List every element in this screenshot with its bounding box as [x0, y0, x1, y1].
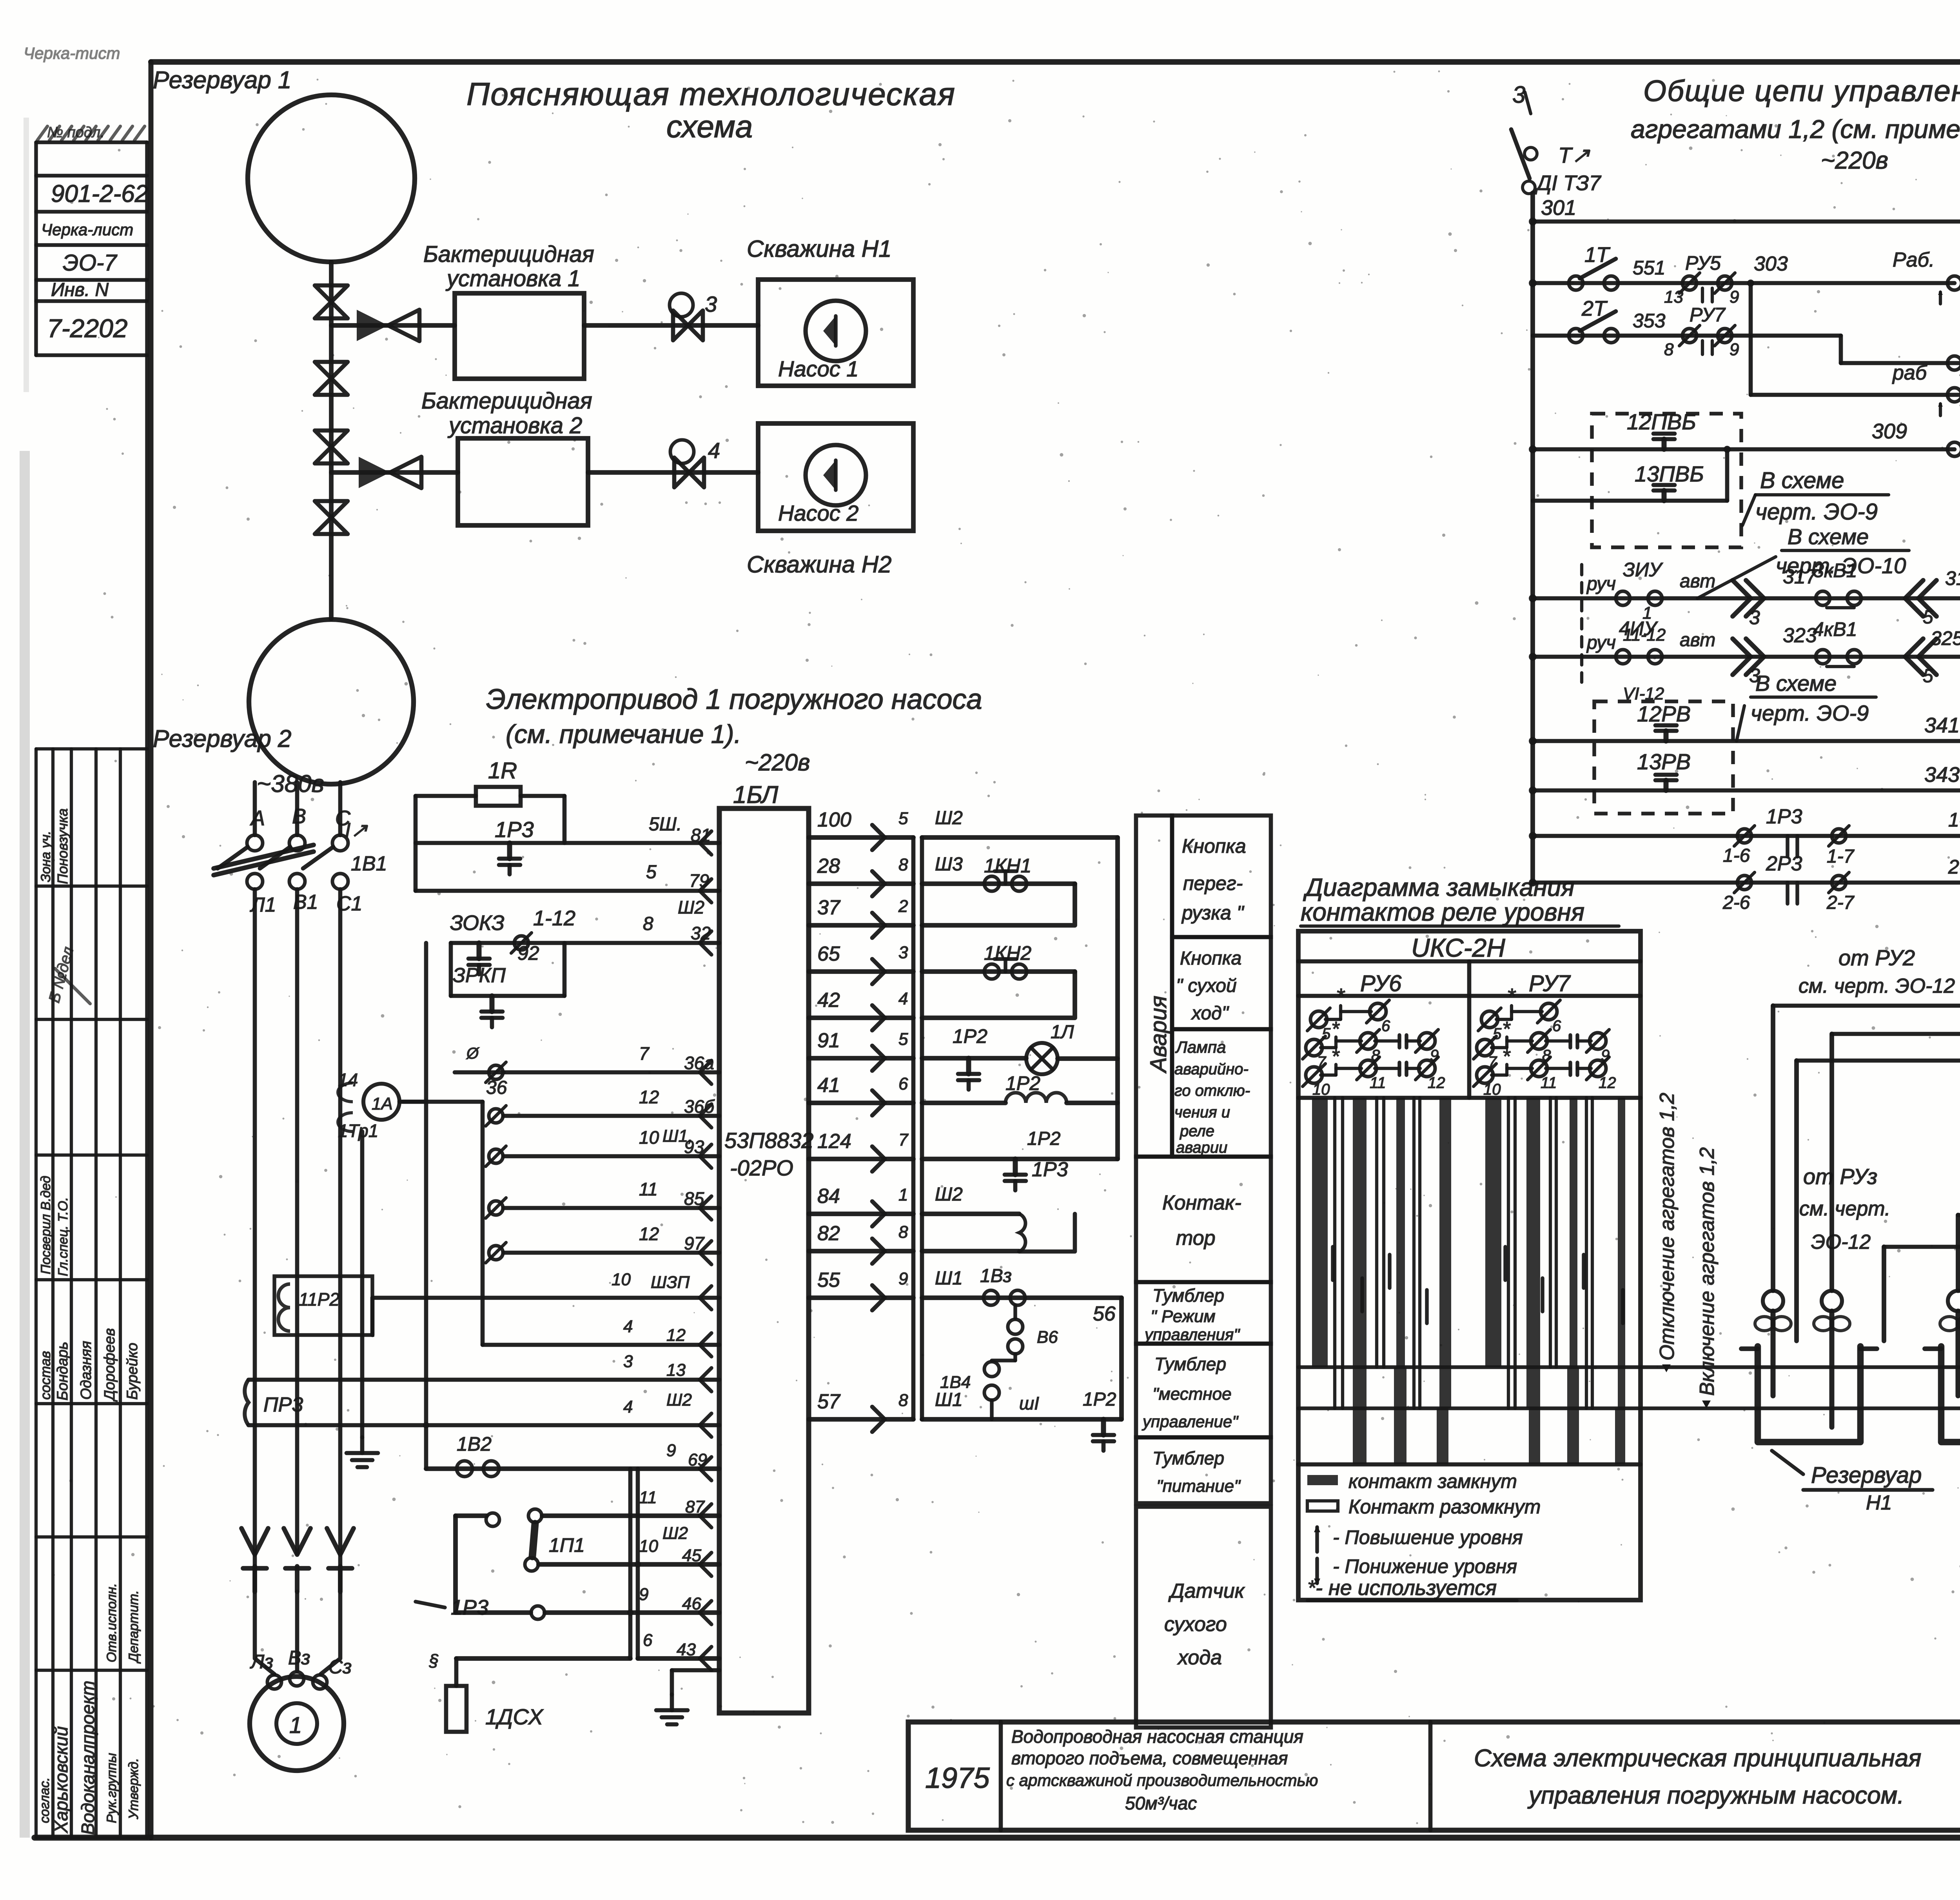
svg-text:чения и: чения и — [1174, 1104, 1230, 1121]
block right output rails — [809, 835, 913, 840]
svg-text:1Р3: 1Р3 — [1766, 805, 1802, 828]
reservoir tank 1 — [1758, 1346, 1860, 1442]
svg-text:1ДСХ: 1ДСХ — [485, 1704, 544, 1729]
junction 303 — [1747, 280, 1754, 287]
svg-text:36а: 36а — [684, 1053, 714, 1073]
left margin scan streak — [20, 451, 30, 1838]
rails from 1П1 into block — [542, 1513, 719, 1518]
svg-text:45: 45 — [682, 1546, 701, 1565]
left strip signature grid middle — [36, 747, 147, 750]
svg-text:Дорофеев: Дорофеев — [102, 1328, 118, 1402]
svg-text:36: 36 — [486, 1077, 507, 1098]
svg-text:ЗРКП: ЗРКП — [453, 964, 506, 987]
probe wire 333 down to tank1 rim — [1794, 1061, 1799, 1341]
svg-text:установка 2: установка 2 — [447, 413, 582, 438]
probe wire 331 down to probe 1b — [1829, 1034, 1834, 1291]
button 1КН2 rung — [922, 969, 1075, 974]
svg-text:*- не используется: *- не используется — [1307, 1576, 1497, 1600]
svg-text:ДІ ТЗ7: ДІ ТЗ7 — [1535, 171, 1602, 195]
desc box Кнопка сухой ход — [1172, 937, 1271, 1029]
svg-text:Вз: Вз — [288, 1647, 310, 1669]
svg-text:1А: 1А — [372, 1094, 393, 1113]
svg-text:ПР3: ПР3 — [263, 1393, 303, 1416]
svg-text:шI: шI — [1019, 1393, 1039, 1413]
svg-text:100: 100 — [817, 808, 851, 831]
svg-text:2-7: 2-7 — [1826, 892, 1855, 913]
svg-text:I↗: I↗ — [345, 819, 368, 842]
svg-text:Бактерицидная: Бактерицидная — [421, 388, 592, 414]
svg-text:Электропривод 1 погружного нас: Электропривод 1 погружного насоса — [486, 684, 982, 715]
valve 3 on pipe — [315, 430, 348, 447]
rail 301 with relay coil 1РН — [1533, 220, 1960, 224]
svg-text:82: 82 — [817, 1222, 840, 1245]
svg-text:1В1: 1В1 — [351, 852, 387, 875]
svg-text:50м³/час: 50м³/час — [1125, 1793, 1197, 1813]
svg-text:124: 124 — [817, 1130, 851, 1153]
svg-text:92: 92 — [517, 942, 539, 964]
svg-text:схема: схема — [666, 109, 753, 144]
svg-text:1Р3: 1Р3 — [495, 817, 534, 842]
rung 2Т with РУ7 contact — [1533, 334, 1841, 338]
svg-text:7: 7 — [639, 1043, 650, 1064]
svg-text:Лз: Лз — [250, 1651, 274, 1673]
desc box Датчик сухого хода — [1136, 1507, 1271, 1727]
svg-text:53П8832: 53П8832 — [724, 1128, 813, 1153]
svg-text:Утвержд.: Утвержд. — [126, 1758, 141, 1820]
UKS header УКС-2Н — [1298, 959, 1641, 964]
svg-text:Авария: Авария — [1146, 996, 1171, 1074]
svg-text:второго подъема, совмещенная: второго подъема, совмещенная — [1011, 1748, 1288, 1768]
svg-text:Инв. N: Инв. N — [51, 280, 109, 300]
check valve on branch 2 — [359, 457, 390, 488]
svg-text:Водоканалпроект: Водоканалпроект — [78, 1680, 98, 1835]
phase wire C down — [338, 889, 343, 1555]
svg-text:см. черт.: см. черт. — [1799, 1197, 1890, 1220]
svg-text:Рук.группы: Рук.группы — [104, 1753, 119, 1823]
svg-text:хода: хода — [1177, 1646, 1222, 1669]
wire 36a stub — [455, 1070, 504, 1075]
svg-text:5: 5 — [1923, 607, 1933, 628]
svg-text:4ИУ: 4ИУ — [1619, 618, 1659, 639]
svg-text:97: 97 — [684, 1233, 705, 1253]
wire 329 to РУ6 — [1773, 1004, 1960, 1008]
probe wire 329 down to probe 1a — [1771, 1006, 1775, 1291]
svg-text:-02РО: -02РО — [730, 1155, 793, 1180]
svg-text:41: 41 — [817, 1074, 840, 1097]
desc box Кнопка перегрузка — [1172, 816, 1271, 937]
svg-text:79: 79 — [689, 870, 709, 891]
bars left half — [1312, 1098, 1328, 1367]
svg-text:РУ7: РУ7 — [1690, 304, 1726, 326]
breaker 1В1 three poles — [253, 782, 257, 835]
svg-text:56: 56 — [1093, 1302, 1116, 1325]
wire transformer secondary down — [360, 1132, 365, 1437]
svg-text:1Р3: 1Р3 — [1032, 1158, 1068, 1181]
svg-text:Резервуар: Резервуар — [1811, 1462, 1922, 1488]
svg-text:В6: В6 — [1037, 1328, 1058, 1347]
selector crossover — [1839, 336, 1843, 363]
svg-text:43: 43 — [677, 1640, 696, 1659]
svg-text:12: 12 — [666, 1326, 686, 1345]
svg-text:авт: авт — [1680, 630, 1715, 650]
svg-text:Кнопка: Кнопка — [1180, 948, 1241, 969]
svg-text:аварии: аварии — [1176, 1139, 1227, 1156]
button 1КН1 rung — [922, 881, 1075, 886]
svg-text:42: 42 — [817, 989, 840, 1012]
svg-text:Зона уч.: Зона уч. — [38, 831, 53, 882]
svg-text:Бондарь: Бондарь — [54, 1342, 71, 1400]
svg-text:управление": управление" — [1142, 1412, 1239, 1431]
svg-text:8: 8 — [898, 1222, 908, 1242]
svg-text:4: 4 — [898, 989, 908, 1008]
svg-text:5: 5 — [646, 862, 657, 883]
svg-text:В схеме: В схеме — [1755, 671, 1837, 696]
svg-text:Гл.спец. Т.О.: Гл.спец. Т.О. — [56, 1197, 71, 1276]
svg-text:аварийно-: аварийно- — [1174, 1061, 1249, 1078]
svg-text:2Р3: 2Р3 — [1766, 852, 1802, 875]
svg-text:контактов реле уровня: контактов реле уровня — [1301, 898, 1584, 926]
wire 337 to РУ7 — [1884, 1245, 1960, 1249]
UKS contact grid — [1310, 1011, 1327, 1028]
svg-text:Тумблер: Тумблер — [1152, 1448, 1224, 1468]
svg-text:черт. ЭО-9: черт. ЭО-9 — [1755, 499, 1878, 525]
svg-text:1Вз: 1Вз — [980, 1266, 1012, 1286]
svg-text:Лампа: Лампа — [1175, 1038, 1226, 1056]
svg-text:3: 3 — [623, 1352, 633, 1371]
svg-text:11: 11 — [1541, 1074, 1557, 1092]
svg-text:9: 9 — [1730, 340, 1739, 359]
svg-text:РУ6: РУ6 — [1360, 971, 1402, 996]
svg-text:6: 6 — [1381, 1017, 1390, 1035]
svg-text:55: 55 — [817, 1269, 840, 1291]
svg-text:ЭО-12: ЭО-12 — [1811, 1231, 1871, 1253]
svg-text:ШЗП: ШЗП — [651, 1273, 690, 1292]
svg-text:11Р2: 11Р2 — [299, 1289, 339, 1310]
svg-text:ЗОКЗ: ЗОКЗ — [450, 911, 505, 935]
svg-text:сухого: сухого — [1164, 1613, 1227, 1636]
block left input rails with slash terminals — [489, 1065, 503, 1079]
wire 333 to РУ6 — [1797, 1059, 1960, 1063]
contact 1Р2 branch to pin7 — [922, 1157, 1118, 1161]
check valve on branch 1 — [357, 310, 388, 341]
svg-text:1: 1 — [898, 1185, 908, 1204]
block lower-left rails — [372, 1296, 719, 1300]
svg-text:1Р2: 1Р2 — [1083, 1389, 1116, 1410]
svg-text:6: 6 — [898, 1074, 908, 1093]
svg-text:Скважина Н1: Скважина Н1 — [747, 236, 891, 262]
svg-text:Черка-лист: Черка-лист — [41, 220, 133, 239]
phase wire B down — [295, 889, 299, 1553]
desc box Тумблер Режим управления — [1136, 1282, 1271, 1344]
svg-text:Отв.исполн.: Отв.исполн. — [104, 1583, 119, 1662]
svg-text:" Режим: " Режим — [1151, 1307, 1216, 1326]
double vertical wires to 43 rail — [628, 1469, 633, 1658]
svg-text:Общие цепи управления: Общие цепи управления — [1643, 74, 1960, 108]
left strip stamp table top — [36, 140, 147, 144]
rung 2ЦР with 2РПН coil — [1751, 393, 1960, 397]
svg-text:- Повышение уровня: - Повышение уровня — [1333, 1526, 1523, 1548]
svg-text:12: 12 — [1599, 1074, 1616, 1092]
svg-text:§: § — [429, 1651, 439, 1670]
svg-text:Бурейко: Бурейко — [124, 1343, 141, 1400]
svg-text:84: 84 — [817, 1185, 840, 1208]
svg-text:8: 8 — [898, 855, 908, 874]
probe wire 337 down to tank2 rim — [1882, 1247, 1886, 1341]
pump 1 circle — [806, 301, 866, 361]
svg-text:Контак-: Контак- — [1162, 1192, 1241, 1214]
svg-text:Черка-тист: Черка-тист — [24, 44, 120, 62]
svg-text:~220в: ~220в — [745, 749, 810, 776]
contact В6 chain — [1013, 1306, 1017, 1318]
svg-text:11: 11 — [1370, 1074, 1386, 1092]
svg-text:323: 323 — [1783, 624, 1817, 647]
svg-text:87: 87 — [685, 1497, 705, 1517]
svg-text:Схема электрическая принципиал: Схема электрическая принципиальная — [1474, 1745, 1921, 1772]
svg-text:Кнопка: Кнопка — [1182, 835, 1246, 857]
svg-text:Включение агрегатов 1,2: Включение агрегатов 1,2 — [1696, 1147, 1719, 1396]
svg-text:5: 5 — [1923, 666, 1933, 687]
svg-text:901-2-62: 901-2-62 — [51, 180, 148, 207]
svg-text:1-7: 1-7 — [1827, 846, 1855, 867]
UKS row РУ6 РУ7 — [1298, 994, 1641, 998]
svg-text:Н1: Н1 — [1866, 1491, 1892, 1514]
UKS bars area — [1298, 1096, 1641, 1100]
pump 2 circle — [806, 445, 866, 505]
svg-text:1В4: 1В4 — [940, 1373, 971, 1392]
svg-text:№ подл.: № подл. — [47, 124, 105, 141]
svg-text:9: 9 — [666, 1441, 676, 1460]
bars right half — [1485, 1098, 1501, 1367]
block 1БЛ outline — [719, 808, 809, 1713]
wire 43 rail with 1ДСХ — [456, 1656, 630, 1661]
rung 1Т with РУ5 contact and 303 — [1533, 281, 1955, 285]
svg-text:28: 28 — [817, 855, 840, 877]
label Резервуар N1 — [1772, 1451, 1803, 1474]
svg-text:Скважина Н2: Скважина Н2 — [747, 551, 891, 578]
relay coil 1Р3 rung vertical — [922, 1212, 1019, 1216]
svg-text:*: * — [1502, 1045, 1511, 1068]
svg-text:Ш2: Ш2 — [678, 897, 704, 917]
svg-text:управления погружным насосом.: управления погружным насосом. — [1527, 1782, 1904, 1809]
long wire to tank 2 line — [1298, 1406, 1960, 1410]
svg-text:303: 303 — [1754, 252, 1788, 275]
svg-text:- Понижение уровня: - Понижение уровня — [1333, 1555, 1517, 1577]
left control bus — [1530, 193, 1535, 883]
svg-text:11: 11 — [639, 1179, 658, 1199]
svg-text:состав: состав — [37, 1351, 53, 1400]
svg-text:контакт замкнут: контакт замкнут — [1348, 1470, 1517, 1492]
svg-text:301: 301 — [1541, 196, 1576, 220]
rail 81 to block — [416, 841, 719, 845]
svg-text:агрегатами 1,2 (см. примечание: агрегатами 1,2 (см. примечание 3). — [1631, 114, 1960, 143]
svg-text:12: 12 — [639, 1224, 659, 1244]
drawing border frame — [151, 59, 1960, 65]
svg-text:9: 9 — [639, 1585, 648, 1604]
svg-text:5Ш.: 5Ш. — [649, 814, 682, 835]
svg-text:13: 13 — [666, 1361, 686, 1380]
current transformer 1А — [363, 1084, 399, 1120]
svg-text:37: 37 — [817, 896, 841, 919]
svg-text:7: 7 — [898, 1130, 909, 1150]
pipe unit2 to well 2 with valve 4 — [588, 470, 758, 475]
svg-text:черт. ЭО-9: черт. ЭО-9 — [1751, 701, 1869, 725]
svg-text:4: 4 — [623, 1397, 633, 1417]
rung 13ПВБ with note ЭО-9 — [1533, 499, 1727, 503]
valve 4 on pipe — [315, 501, 348, 518]
svg-text:ЗИУ: ЗИУ — [1623, 559, 1663, 581]
desc column Авария strip — [1136, 816, 1172, 1157]
desc box Тумблер местное управление — [1136, 1344, 1271, 1437]
svg-text:Ш3: Ш3 — [935, 854, 963, 875]
rail 79 to block — [416, 889, 719, 893]
svg-text:(см. примечание 1).: (см. примечание 1). — [506, 719, 741, 748]
svg-text:~220в: ~220в — [1821, 147, 1888, 174]
lamp 1Л rung with 1Р2 contact — [922, 1056, 1026, 1061]
svg-text:1-12: 1-12 — [533, 906, 575, 930]
svg-text:8: 8 — [643, 914, 653, 934]
desc box Контактор — [1136, 1157, 1271, 1282]
svg-text:Тумблер: Тумблер — [1152, 1285, 1224, 1306]
svg-text:317: 317 — [1783, 565, 1818, 588]
svg-text:12: 12 — [1428, 1074, 1445, 1092]
dashed box 12РВ 13РВ — [1594, 701, 1733, 814]
svg-text:*: * — [1331, 1018, 1340, 1041]
svg-text:Сз: Сз — [328, 1656, 352, 1678]
svg-text:Харьковский: Харьковский — [51, 1726, 71, 1833]
valve with actuator 3 — [673, 311, 688, 340]
svg-text:Контакт разомкнут: Контакт разомкнут — [1348, 1496, 1541, 1518]
reservoir 2 circle — [249, 619, 414, 784]
svg-text:46: 46 — [682, 1594, 701, 1613]
svg-text:соглас.: соглас. — [37, 1777, 52, 1823]
svg-text:13: 13 — [1664, 287, 1683, 307]
svg-text:Ø: Ø — [466, 1045, 480, 1062]
svg-text:10: 10 — [612, 1270, 631, 1289]
rung 309 — [1533, 447, 1955, 452]
valve 2 on pipe — [315, 362, 348, 378]
svg-text:4: 4 — [708, 438, 720, 463]
svg-text:*: * — [1507, 984, 1516, 1008]
svg-text:7-2202: 7-2202 — [47, 314, 128, 343]
valve with actuator 4 — [674, 458, 689, 487]
UKS table outer box — [1298, 931, 1641, 1600]
svg-text:Датчик: Датчик — [1168, 1580, 1245, 1602]
svg-text:4кВ1: 4кВ1 — [1813, 618, 1857, 640]
svg-text:341: 341 — [1924, 714, 1960, 737]
svg-text:Ш2: Ш2 — [666, 1390, 692, 1410]
wire 331 to РУ6 — [1832, 1032, 1960, 1036]
svg-text:ход": ход" — [1191, 1003, 1229, 1024]
relay coil 1Р2 rung — [922, 1101, 1005, 1105]
long wire to tank 1 line — [1298, 1365, 1960, 1369]
svg-text:от РУз: от РУз — [1803, 1164, 1877, 1189]
pipe unit1 to well 1 with valve 3 — [584, 323, 758, 328]
svg-text:9: 9 — [1730, 287, 1739, 307]
svg-text:Ш2: Ш2 — [935, 808, 963, 828]
svg-text:А: А — [250, 807, 265, 830]
svg-text:Насос 2: Насос 2 — [778, 501, 858, 525]
svg-text:5: 5 — [898, 809, 908, 828]
probe 1a — [1763, 1291, 1783, 1311]
svg-text:руч: руч — [1586, 632, 1616, 653]
motor terminals Л3 В3 С3 — [255, 1555, 274, 1674]
svg-text:Бактерицидная: Бактерицидная — [423, 242, 594, 267]
svg-text:с артскважиной производительно: с артскважиной производительностью — [1006, 1771, 1318, 1789]
svg-text:Посверил В.дед: Посверил В.дед — [38, 1176, 53, 1274]
svg-text:UКС-2Н: UКС-2Н — [1411, 933, 1505, 962]
contact block 1П1 — [456, 1513, 486, 1518]
svg-text:2-6: 2-6 — [1722, 892, 1750, 913]
svg-text:"питание": "питание" — [1156, 1477, 1241, 1496]
svg-text:*: * — [1331, 1045, 1340, 1068]
ground under block — [670, 1670, 674, 1695]
right return wire — [922, 835, 1118, 840]
svg-text:*: * — [1502, 1018, 1511, 1041]
svg-text:" сухой: " сухой — [1176, 975, 1237, 996]
branch pipe to unit 1 — [331, 323, 455, 328]
svg-text:Резервуар 2: Резервуар 2 — [153, 725, 292, 752]
svg-text:Раб.: Раб. — [1893, 249, 1935, 271]
valve 1 on pipe — [315, 285, 348, 302]
svg-text:Тумблер: Тумблер — [1154, 1354, 1226, 1374]
svg-text:Поясняющая технологическая: Поясняющая технологическая — [466, 76, 956, 112]
well 2 box Скважина N2 — [758, 423, 913, 531]
svg-text:Ш1: Ш1 — [935, 1390, 963, 1410]
svg-text:1БЛ: 1БЛ — [733, 781, 779, 808]
svg-text:1975: 1975 — [925, 1762, 990, 1794]
svg-text:6: 6 — [643, 1631, 653, 1650]
svg-text:2: 2 — [898, 897, 908, 916]
fuse ПР3 on phase A — [245, 1380, 249, 1425]
reservoir tank 2 — [1941, 1346, 1960, 1442]
svg-text:11: 11 — [639, 1488, 657, 1507]
bactericide unit 2 box — [458, 438, 588, 525]
svg-text:65: 65 — [817, 943, 840, 965]
svg-text:8: 8 — [898, 1391, 908, 1410]
rung Ш1 with 1В3 contact — [922, 1295, 1122, 1300]
svg-text:3: 3 — [898, 943, 908, 962]
svg-text:тор: тор — [1176, 1227, 1216, 1250]
probe 2a — [1948, 1291, 1960, 1311]
svg-text:Ш2: Ш2 — [662, 1524, 688, 1543]
svg-text:перег-: перег- — [1183, 872, 1243, 894]
breaker contacts 1Р3 on phases — [241, 1528, 268, 1555]
svg-text:Насос 1: Насос 1 — [778, 356, 858, 381]
svg-text:36б: 36б — [684, 1096, 715, 1117]
contact 1В4 chain — [984, 1362, 999, 1377]
vertical bus Ш2 double line — [911, 837, 916, 1419]
svg-text:12ПВБ: 12ПВБ — [1627, 409, 1696, 434]
svg-text:Водопроводная насосная станция: Водопроводная насосная станция — [1011, 1726, 1303, 1747]
bus junction dots — [1529, 218, 1537, 225]
hatched header row — [37, 126, 47, 140]
svg-text:13РВ: 13РВ — [1637, 749, 1691, 774]
probe 1b — [1822, 1291, 1842, 1311]
svg-text:353: 353 — [1633, 310, 1666, 332]
level arrows inside bars — [1331, 1247, 1334, 1280]
left strip signature grid bottom — [36, 1535, 147, 1539]
svg-text:3: 3 — [705, 292, 717, 316]
svg-text:*: * — [1336, 984, 1345, 1008]
svg-text:РУ5: РУ5 — [1685, 252, 1721, 274]
svg-text:от РУ2: от РУ2 — [1838, 945, 1915, 970]
svg-text:Отключение агрегатов 1,2: Отключение агрегатов 1,2 — [1656, 1093, 1679, 1361]
1В2 rail into block — [700, 1457, 711, 1480]
svg-text:2-7: 2-7 — [1948, 856, 1960, 878]
svg-text:309: 309 — [1872, 420, 1907, 443]
motor circle — [250, 1677, 344, 1771]
wire 335 to РУ7 — [1958, 1213, 1960, 1217]
